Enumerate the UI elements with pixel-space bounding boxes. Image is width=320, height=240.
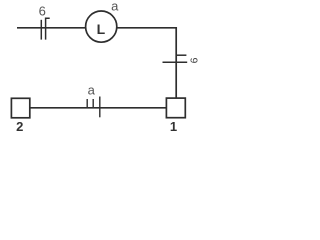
svg-text:a: a bbox=[88, 82, 96, 97]
svg-text:6: 6 bbox=[39, 4, 46, 19]
svg-text:a: a bbox=[111, 0, 119, 14]
svg-text:6: 6 bbox=[188, 57, 200, 63]
svg-text:1: 1 bbox=[170, 119, 177, 134]
svg-text:2: 2 bbox=[16, 119, 23, 134]
svg-text:L: L bbox=[97, 21, 106, 37]
